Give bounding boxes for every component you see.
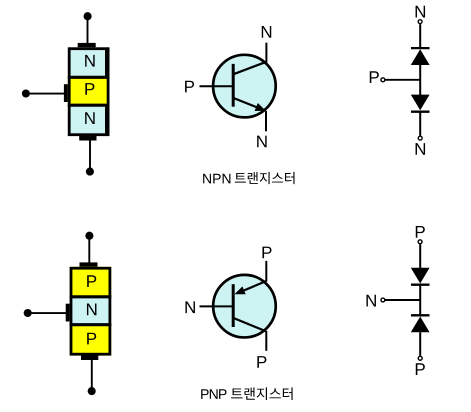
label: B2 middle layer "N"	[87, 304, 96, 316]
wire: NPN diode model top lead	[419, 24, 421, 48]
B1 middle P-type layer	[68, 77, 110, 105]
label: B1 top layer "N"	[85, 55, 94, 67]
caption: PNP 트랜지스터	[201, 389, 226, 399]
node: NPN diode model top open terminal	[418, 20, 422, 24]
wire: NPN diode model mid link	[419, 64, 421, 95]
B1 junction line 1	[68, 76, 110, 79]
transistor symbol Q2 (PNP) body circle	[213, 275, 276, 338]
label: PNP diode model bottom "P"	[416, 363, 425, 375]
B1 bottom electrode bar	[79, 136, 96, 141]
label: B2 bottom layer "P"	[87, 333, 96, 345]
B1 bottom N-type layer	[68, 105, 110, 136]
wire: B2 bottom lead	[91, 360, 93, 389]
wire: B1 top lead	[87, 16, 89, 45]
node: NPN diode model bottom open terminal	[418, 136, 422, 140]
wire: Q1 base lead	[200, 85, 234, 87]
B1 inner edge fill beside top layer	[105, 49, 108, 76]
label: B1 bottom layer "N"	[85, 112, 94, 124]
wire: B1 bottom lead	[89, 140, 91, 169]
B2 body outline	[71, 268, 110, 354]
B2 junction line 1	[70, 295, 112, 298]
B1 inner edge fill beside bottom layer	[105, 107, 108, 134]
wire: PNP diode model centre tap	[385, 299, 421, 301]
label: Q1 emitter "N"	[257, 136, 266, 148]
node: PNP diode model top open terminal	[418, 240, 422, 244]
node: B1 top terminal dot	[84, 12, 92, 20]
wire: PNP diode model top lead	[419, 244, 421, 268]
B2 bottom P-type layer	[70, 325, 112, 356]
B1 top N-type layer	[68, 47, 110, 77]
wire: Q2 base lead	[200, 305, 234, 307]
Q2 base bar	[232, 284, 235, 327]
Q2 emitter diagonal	[241, 281, 266, 292]
label: Q2 collector "P"	[257, 356, 266, 368]
wire: PNP diode model bottom lead	[419, 332, 421, 356]
wire: Q2 collector lead (bottom)	[265, 331, 267, 351]
node: NPN diode model centre open terminal	[381, 78, 385, 82]
transistor block model B2 (P-N-P sandwich)	[24, 232, 112, 396]
Q1 base bar	[232, 64, 235, 107]
Q2 collector diagonal	[233, 318, 266, 332]
wire: Q2 emitter lead (top)	[265, 261, 267, 282]
label: Q1 base "P"	[185, 81, 194, 93]
B2 top electrode bar	[80, 262, 98, 267]
label: PNP diode model centre "N"	[366, 295, 375, 307]
label: NPN diode model bottom "N"	[416, 143, 425, 155]
B1 base electrode bar	[64, 84, 68, 102]
transistor symbol Q1 (NPN) body circle	[213, 55, 276, 118]
B1 junction line 2	[68, 104, 110, 107]
wire: NPN diode model bottom lead	[419, 112, 421, 136]
diode D2 of PNP diode model	[411, 314, 430, 316]
wire: PNP diode model mid link	[419, 284, 421, 315]
wire: B1 base lead	[26, 93, 65, 95]
label: NPN diode model top "N"	[416, 6, 425, 18]
Q1 emitter arrowhead	[255, 103, 266, 111]
node: B1 base terminal dot	[22, 89, 30, 97]
node: PNP diode model centre open terminal	[381, 298, 385, 302]
label: NPN diode model centre "P"	[370, 71, 379, 83]
wire: B2 top lead	[88, 236, 90, 265]
caption: NPN 트랜지스터	[203, 174, 230, 184]
wire: B2 base lead	[28, 312, 67, 314]
node: B2 top terminal dot	[85, 232, 93, 240]
label: Q2 base "N"	[185, 301, 194, 313]
B2 base electrode bar	[66, 304, 70, 322]
B1 top electrode bar	[78, 43, 96, 48]
B1 body outline	[69, 49, 108, 135]
node: B2 bottom terminal dot	[88, 387, 96, 395]
B2 middle N-type layer	[70, 297, 112, 325]
wire: NPN diode model centre tap	[385, 79, 421, 81]
diode D1 of NPN diode model	[411, 47, 430, 49]
label: B2 top layer "P"	[87, 275, 96, 287]
label: B1 middle layer "P"	[85, 83, 94, 95]
label: Q1 collector "N"	[262, 26, 271, 38]
Q1 emitter diagonal	[233, 98, 260, 109]
node: PNP diode model bottom open terminal	[418, 356, 422, 360]
node: B2 base terminal dot	[24, 309, 32, 317]
node: B1 bottom terminal dot	[86, 168, 94, 176]
B2 top P-type layer	[70, 267, 112, 297]
wire: Q1 emitter lead	[265, 111, 267, 132]
diode D1 of PNP diode model	[411, 268, 430, 284]
diode D2 of NPN diode model	[411, 95, 430, 111]
label: PNP diode model top "P"	[416, 226, 425, 238]
B2 bottom electrode bar	[81, 355, 98, 360]
Q2 emitter arrowhead	[235, 286, 246, 294]
label: Q2 emitter "P"	[262, 247, 271, 259]
Q1 collector diagonal	[233, 62, 266, 75]
B2 junction line 2	[70, 323, 112, 326]
wire: Q1 collector lead	[265, 43, 267, 63]
transistor block model B1 (N-P-N sandwich)	[22, 12, 110, 176]
